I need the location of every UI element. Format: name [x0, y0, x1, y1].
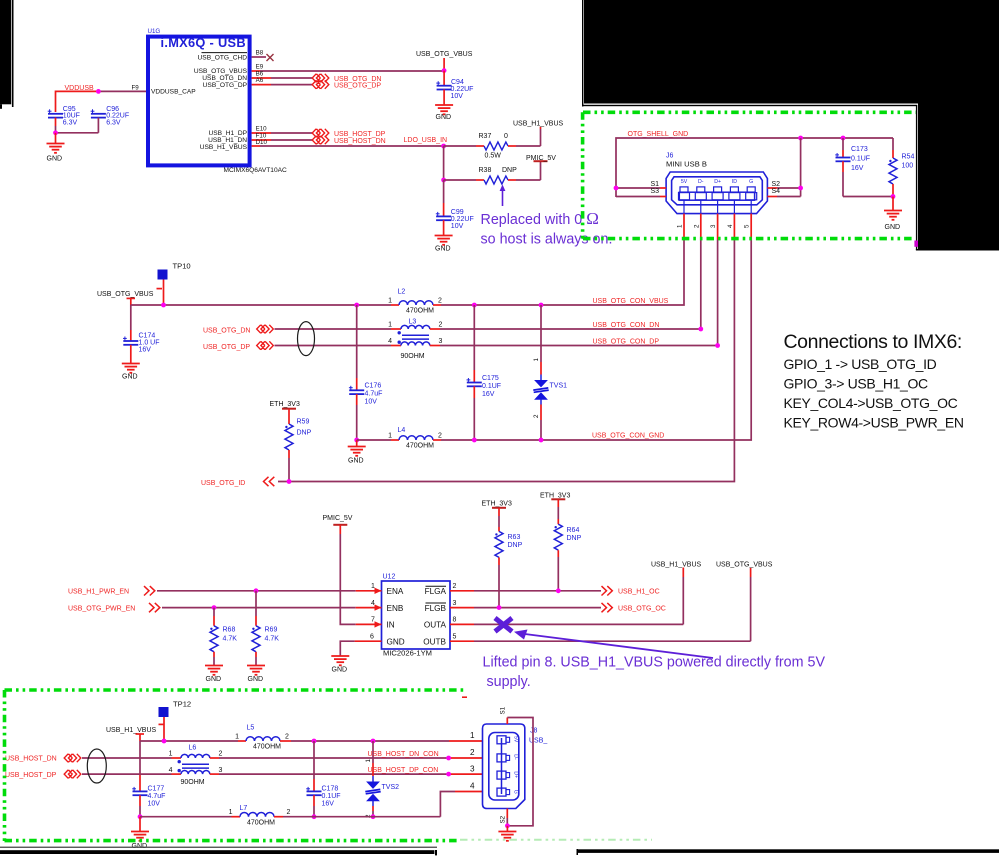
svg-text:USB_OTG_CON_VBUS: USB_OTG_CON_VBUS: [593, 298, 669, 305]
transformer L3 common-mode choke: [388, 319, 442, 361]
redaction bar top-right: [582, 0, 999, 251]
svg-text:i.MX6Q - USB: i.MX6Q - USB: [161, 35, 246, 50]
wire OUTA pin8: [450, 568, 683, 625]
redaction bar top-left: [0, 0, 14, 109]
junction C94 tap: [442, 68, 447, 73]
wire OTG_DP row: [275, 345, 718, 347]
svg-text:TP10: TP10: [173, 262, 191, 271]
junction DN_CON: [446, 756, 451, 761]
svg-text:2: 2: [693, 224, 700, 228]
svg-text:90OHM: 90OHM: [181, 779, 205, 786]
off-page connector USB_HOST_DP (bottom): [64, 770, 81, 778]
svg-text:DNP: DNP: [567, 535, 582, 542]
svg-text:DNP: DNP: [508, 542, 523, 549]
svg-text:USB_OTG_PWR_EN: USB_OTG_PWR_EN: [68, 605, 135, 612]
svg-text:8: 8: [453, 617, 457, 624]
svg-text:GND: GND: [435, 246, 451, 253]
pin 3 wire J6 to CON_DP: [710, 214, 718, 346]
pin S3: [616, 188, 666, 196]
svg-text:GPIO_3-> USB_H1_OC: GPIO_3-> USB_H1_OC: [784, 376, 929, 392]
svg-text:2: 2: [470, 748, 475, 757]
resistor R59 DNP: [285, 409, 312, 482]
wire HOST_DN row: [82, 757, 483, 759]
svg-text:R69: R69: [265, 627, 278, 634]
svg-text:S4: S4: [772, 188, 781, 195]
svg-text:D+: D+: [513, 771, 519, 778]
svg-text:GND: GND: [206, 676, 222, 683]
wire D10 USB_H1_VBUS / LDO_USB_IN: [252, 139, 444, 146]
pin 1 wire J6 to CON_VBUS: [541, 214, 684, 305]
wire OTG VBUS rail: [131, 304, 541, 306]
svg-text:1: 1: [235, 734, 239, 741]
junction R69 on ENA: [254, 588, 259, 593]
svg-text:0.1UF: 0.1UF: [482, 383, 501, 390]
svg-text:5: 5: [744, 224, 751, 228]
junction S2 shield: [505, 823, 510, 828]
svg-text:GND: GND: [248, 676, 264, 683]
svg-text:USB_OTG_DP: USB_OTG_DP: [203, 344, 250, 351]
svg-text:USB_OTG_CON_GND: USB_OTG_CON_GND: [592, 432, 664, 439]
svg-text:L4: L4: [398, 427, 406, 434]
svg-text:2: 2: [285, 734, 289, 741]
svg-text:GND: GND: [885, 224, 901, 231]
annotation ellipse (host diff pair): [87, 749, 106, 783]
svg-text:R64: R64: [567, 527, 580, 534]
connector J6 MINI USB B: [666, 153, 767, 214]
svg-text:LDO_USB_IN: LDO_USB_IN: [404, 137, 448, 144]
wire GND return row L7: [140, 792, 483, 817]
svg-text:USB_HOST_DN_CON: USB_HOST_DN_CON: [368, 751, 439, 758]
svg-text:10V: 10V: [451, 93, 464, 100]
capacitor C95: [48, 106, 80, 133]
capacitor C178: [306, 741, 340, 817]
pin 2 wire J6 to CON_DN: [693, 214, 701, 329]
inductor L7: [229, 805, 291, 827]
junction R63 on FLGB: [497, 605, 502, 610]
svg-text:S1: S1: [500, 706, 507, 714]
node USB_OTG_VBUS label (mid rail): [97, 289, 162, 305]
junction S2 riser: [798, 186, 803, 191]
svg-text:ETH_3V3: ETH_3V3: [482, 501, 512, 508]
svg-text:L2: L2: [398, 289, 406, 296]
off-page connector USB_OTG_DP (mid): [257, 341, 274, 349]
svg-text:KEY_COL4->USB_OTG_OC: KEY_COL4->USB_OTG_OC: [784, 395, 958, 411]
svg-text:USB_HOST_DP_CON: USB_HOST_DP_CON: [368, 767, 439, 774]
svg-text:6.3V: 6.3V: [63, 119, 78, 126]
pin boxes J6: [679, 187, 757, 214]
redaction bar bottom-left: [0, 847, 437, 856]
wire FLGA pin2: [450, 583, 601, 591]
svg-text:S3: S3: [651, 188, 660, 195]
wire OUTB pin5: [450, 568, 751, 642]
svg-text:USB_OTG_ID: USB_OTG_ID: [201, 480, 245, 487]
svg-text:F9: F9: [132, 85, 140, 92]
diode TVS2: [365, 741, 399, 818]
wire ENA pin1: [157, 583, 382, 594]
wire cap commons to ground: [56, 132, 99, 134]
off-page connector USB_OTG_PWR_EN: [149, 603, 160, 612]
junction on VDDUSB at C96: [96, 89, 101, 94]
svg-text:GPIO_1 -> USB_OTG_ID: GPIO_1 -> USB_OTG_ID: [784, 356, 937, 372]
svg-text:1: 1: [169, 751, 173, 758]
annotation replaced with 0 ohm: [481, 209, 613, 248]
svg-text:3: 3: [453, 600, 457, 607]
off-page connector USB_OTG_OC: [602, 603, 613, 612]
svg-text:PMIC_5V: PMIC_5V: [323, 515, 353, 522]
svg-text:6: 6: [370, 633, 374, 640]
svg-text:TVS2: TVS2: [382, 784, 400, 791]
svg-text:B8: B8: [256, 50, 264, 57]
junction TVS1 bottom: [539, 438, 544, 443]
svg-text:GND: GND: [348, 458, 364, 465]
capacitor C173: [835, 138, 870, 197]
resistor R38 DNP: [444, 167, 541, 184]
svg-text:USB_OTG_DP: USB_OTG_DP: [334, 83, 381, 90]
svg-text:L7: L7: [240, 805, 248, 812]
svg-text:10V: 10V: [451, 223, 464, 230]
resistor R54: [889, 138, 914, 197]
svg-text:3: 3: [710, 224, 717, 228]
ground GND (C176): [348, 440, 366, 465]
node PMIC_5V label (U12): [323, 515, 353, 525]
svg-text:USB_OTG_DN: USB_OTG_DN: [203, 328, 250, 335]
junction C176 top: [354, 303, 359, 308]
node ETH_3V3 label (R64): [540, 492, 570, 499]
junction C175 bottom: [472, 438, 477, 443]
wire ENB pin4: [162, 600, 382, 611]
annotation ellipse (diff pair): [298, 322, 315, 356]
pin S1: [616, 181, 666, 188]
pin S2: [767, 181, 800, 188]
svg-text:OUTA: OUTA: [424, 621, 447, 630]
svg-text:J6: J6: [666, 153, 674, 160]
svg-text:USB_OTG_CON_DN: USB_OTG_CON_DN: [593, 322, 660, 329]
svg-text:ENB: ENB: [387, 604, 404, 613]
svg-text:0.1UF: 0.1UF: [322, 793, 341, 800]
svg-text:OTG_SHELL_GND: OTG_SHELL_GND: [628, 131, 689, 138]
svg-text:so host is always on.: so host is always on.: [481, 232, 613, 248]
junction CON_DN corner: [698, 327, 703, 332]
transformer L6 common-mode choke: [169, 744, 223, 786]
svg-text:Connections to IMX6:: Connections to IMX6:: [784, 331, 962, 353]
svg-text:USB_OTG_VBUS: USB_OTG_VBUS: [194, 68, 248, 75]
capacitor C94: [436, 71, 473, 105]
node USB_H1_VBUS label (R37): [513, 121, 564, 147]
svg-text:7: 7: [371, 617, 375, 624]
pin 4 wire J6 to USB_OTG_ID: [278, 214, 734, 482]
svg-text:C176: C176: [365, 383, 382, 390]
ground GND (R54): [884, 197, 902, 232]
junction DP_CON: [446, 772, 451, 777]
svg-text:USB_H1_VBUS: USB_H1_VBUS: [106, 727, 157, 734]
junction R68 on ENB: [212, 605, 217, 610]
svg-text:GND: GND: [436, 114, 452, 121]
svg-text:USB_OTG_VBUS: USB_OTG_VBUS: [716, 562, 773, 569]
svg-text:470OHM: 470OHM: [406, 443, 434, 450]
svg-text:4: 4: [470, 782, 475, 791]
svg-text:C177: C177: [148, 786, 165, 793]
svg-text:10V: 10V: [148, 801, 161, 808]
ground GND (J8 shield): [498, 826, 516, 841]
svg-text:100: 100: [902, 163, 914, 170]
svg-text:5: 5: [453, 633, 457, 640]
wire HOST_DP row: [82, 773, 483, 775]
ground GND (R68): [205, 666, 223, 684]
wire C173 bottom to R54: [843, 196, 893, 198]
wire IN pin7: [356, 617, 382, 628]
junction C178 bottom: [312, 814, 317, 819]
svg-text:C174: C174: [139, 333, 156, 340]
svg-text:G: G: [749, 179, 753, 185]
svg-text:GND: GND: [387, 637, 405, 646]
svg-text:D+: D+: [714, 179, 721, 185]
svg-text:1: 1: [388, 322, 392, 329]
svg-text:4: 4: [371, 600, 375, 607]
junction C177 bottom: [138, 814, 143, 819]
svg-text:USB_H1_VBUS: USB_H1_VBUS: [200, 144, 248, 151]
svg-text:5V: 5V: [513, 736, 519, 743]
svg-text:4.7uF: 4.7uF: [365, 391, 383, 398]
capacitor C99: [436, 180, 474, 236]
svg-text:GND: GND: [47, 156, 63, 163]
svg-text:USB_H1_VBUS: USB_H1_VBUS: [651, 562, 702, 569]
svg-text:3: 3: [219, 767, 223, 774]
svg-text:E9: E9: [256, 64, 264, 71]
junction C178 top: [312, 739, 317, 744]
annotation lifted pin8 text: [483, 655, 826, 691]
junction S1 left: [614, 186, 619, 191]
svg-text:4.7uF: 4.7uF: [148, 793, 166, 800]
wire LDO branch down: [443, 146, 445, 180]
svg-text:4: 4: [169, 767, 173, 774]
svg-text:1: 1: [371, 583, 375, 590]
wire B6 USB_OTG_DN: [252, 71, 312, 78]
svg-text:VDDUSB_CAP: VDDUSB_CAP: [151, 89, 196, 96]
svg-text:DNP: DNP: [502, 167, 517, 174]
off-page connector USB_H1_OC: [602, 586, 613, 595]
inductor L2: [388, 289, 442, 315]
node USB_H1_VBUS label (bottom): [106, 724, 164, 741]
svg-text:2: 2: [439, 322, 443, 329]
inductor L4: [388, 427, 442, 450]
off-page connector USB_OTG_DP: [312, 80, 329, 88]
pin boxes J8: [497, 736, 519, 796]
test point TP12: [159, 700, 192, 742]
junction TP12: [162, 739, 167, 744]
annotation arrow lifted pin8: [514, 630, 713, 659]
off-page connector USB_HOST_DP: [312, 129, 329, 137]
svg-text:90OHM: 90OHM: [401, 353, 425, 360]
svg-text:C175: C175: [482, 375, 499, 382]
svg-text:USB_: USB_: [529, 738, 547, 745]
svg-text:0.22UF: 0.22UF: [451, 216, 474, 223]
svg-text:USB_HOST_DP: USB_HOST_DP: [5, 772, 57, 779]
svg-text:1: 1: [229, 809, 233, 816]
svg-text:3: 3: [470, 765, 475, 774]
ground GND (C95/C96): [47, 133, 65, 163]
svg-text:USB_OTG_OC: USB_OTG_OC: [618, 605, 666, 612]
svg-text:USB_H1_PWR_EN: USB_H1_PWR_EN: [68, 589, 129, 596]
svg-text:2: 2: [287, 809, 291, 816]
svg-text:S2: S2: [772, 181, 781, 188]
resistor R69: [252, 591, 279, 666]
wire CON_GND row left: [357, 439, 391, 441]
svg-text:Lifted pin 8. USB_H1_VBUS pow: Lifted pin 8. USB_H1_VBUS powered direct…: [483, 655, 826, 671]
wire S2S4 riser: [800, 138, 802, 197]
svg-text:ID: ID: [732, 179, 737, 185]
junction R64 on FLGA: [556, 588, 561, 593]
wire VDDUSB rail: [56, 91, 147, 112]
svg-text:TP12: TP12: [173, 700, 191, 709]
junction C173 top: [841, 136, 846, 141]
svg-text:MCIMX6Q6AVT10AC: MCIMX6Q6AVT10AC: [224, 167, 288, 174]
svg-text:TVS1: TVS1: [550, 383, 568, 390]
off-page connector USB_OTG_DN (mid): [257, 325, 274, 333]
ground GND (C174): [122, 364, 140, 381]
junction R38 branch: [441, 178, 446, 183]
off-page connector USB_OTG_DN: [312, 74, 329, 82]
svg-text:MIC2026-1YM: MIC2026-1YM: [383, 649, 432, 658]
svg-text:USB_OTG_DP: USB_OTG_DP: [203, 82, 248, 89]
svg-text:ETH_3V3: ETH_3V3: [540, 492, 570, 499]
svg-text:1: 1: [470, 731, 475, 740]
svg-text:1: 1: [677, 224, 684, 228]
svg-text:FLGA: FLGA: [425, 587, 447, 596]
svg-text:C99: C99: [451, 209, 464, 216]
svg-text:S2: S2: [500, 815, 507, 823]
svg-text:KEY_ROW4->USB_PWR_EN: KEY_ROW4->USB_PWR_EN: [784, 415, 964, 431]
resistor R68: [210, 608, 237, 666]
svg-text:S1: S1: [651, 181, 660, 188]
resistor R63 DNP: [495, 508, 523, 608]
svg-text:16V: 16V: [851, 165, 864, 172]
wire OTG_SHELL_GND: [616, 138, 893, 197]
svg-text:USB_H1_OC: USB_H1_OC: [618, 589, 660, 596]
svg-text:16V: 16V: [482, 391, 495, 398]
svg-text:0.1UF: 0.1UF: [851, 156, 870, 163]
svg-text:4.7K: 4.7K: [265, 636, 280, 643]
off-page connector USB_HOST_DN: [312, 136, 329, 144]
wire FLGB pin3: [450, 600, 601, 608]
svg-text:USB_HOST_DN: USB_HOST_DN: [334, 138, 386, 145]
svg-text:R37: R37: [479, 133, 492, 140]
svg-text:C173: C173: [851, 146, 868, 153]
svg-text:16V: 16V: [322, 801, 335, 808]
svg-text:R68: R68: [223, 627, 236, 634]
off-page connector USB_H1_PWR_EN: [144, 586, 155, 595]
junction S2S4 riser top: [798, 136, 803, 141]
svg-text:U1G: U1G: [148, 28, 161, 35]
ground GND (C99): [435, 236, 453, 253]
node ETH_3V3 label (R59): [270, 401, 300, 409]
svg-text:1: 1: [388, 433, 392, 440]
svg-text:USB_H1_DP: USB_H1_DP: [209, 130, 248, 137]
svg-text:5V: 5V: [681, 179, 688, 185]
junction R59 on ID row: [287, 479, 292, 484]
svg-text:USB_HOST_DP: USB_HOST_DP: [334, 131, 386, 138]
capacitor C177: [132, 741, 165, 817]
ground GND (U12 pin6): [331, 656, 349, 674]
svg-text:1.0 UF: 1.0 UF: [139, 340, 160, 347]
junction LDO_USB_IN branch: [441, 144, 446, 149]
svg-text:0: 0: [504, 133, 508, 140]
junction R54 bottom: [891, 194, 896, 199]
svg-text:4: 4: [727, 224, 734, 228]
svg-text:R54: R54: [902, 154, 915, 161]
wire GND pin6: [340, 633, 381, 656]
test point TP10: [158, 262, 191, 306]
svg-text:L5: L5: [247, 725, 255, 732]
svg-text:USB_OTG_CON_DP: USB_OTG_CON_DP: [593, 339, 660, 346]
svg-text:1: 1: [388, 298, 392, 305]
svg-text:PMIC_5V: PMIC_5V: [526, 155, 556, 162]
IC U1G i.MX6Q - USB: [148, 28, 288, 174]
wire E10 USB_H1_DP: [252, 126, 312, 133]
pin B8 no-connect: [252, 50, 274, 61]
resistor R37: [444, 133, 541, 160]
svg-text:R59: R59: [297, 419, 310, 426]
svg-text:G: G: [513, 790, 519, 794]
diode TVS1: [533, 305, 567, 440]
svg-text:L3: L3: [409, 319, 417, 326]
svg-text:0.22UF: 0.22UF: [451, 86, 474, 93]
IC U12 MIC2026-1YM: [382, 574, 451, 658]
pin S4: [767, 188, 800, 196]
svg-text:USB_OTG_VBUS: USB_OTG_VBUS: [97, 291, 154, 298]
svg-text:470OHM: 470OHM: [247, 820, 275, 827]
node ETH_3V3 label (R63): [482, 501, 512, 508]
wire F10 USB_H1_DN: [252, 133, 312, 140]
highlight box OTG connector (green dashed): [583, 112, 916, 238]
svg-text:FLGB: FLGB: [425, 604, 447, 613]
wire A6 USB_OTG_DP: [252, 77, 312, 84]
junction CON_DP corner: [715, 343, 720, 348]
junction TVS2 top: [371, 739, 376, 744]
svg-text:2: 2: [438, 298, 442, 305]
junction C176 bottom: [354, 438, 359, 443]
svg-text:2: 2: [438, 433, 442, 440]
capacitor C174: [123, 305, 160, 364]
svg-text:R63: R63: [508, 534, 521, 541]
pin S1 J8 shield: [500, 706, 534, 825]
junction C175 top: [472, 303, 477, 308]
off-page connector USB_OTG_ID: [264, 477, 275, 486]
svg-text:C178: C178: [322, 786, 339, 793]
svg-text:GND: GND: [122, 374, 138, 381]
svg-text:USB_OTG_CHD: USB_OTG_CHD: [198, 54, 248, 61]
highlight box host connector (green dashed): [5, 690, 653, 841]
svg-text:3: 3: [439, 338, 443, 345]
svg-text:470OHM: 470OHM: [253, 744, 281, 751]
svg-text:L6: L6: [189, 744, 197, 751]
svg-text:0.5W: 0.5W: [485, 153, 502, 160]
svg-text:C94: C94: [451, 79, 464, 86]
junction TVS1 top: [539, 303, 544, 308]
wire PMIC_5V to IN: [340, 525, 355, 624]
redaction bar bottom-right: [577, 849, 999, 855]
wire H1 VBUS rail: [140, 740, 483, 742]
svg-text:2: 2: [219, 751, 223, 758]
pin S2 J8 shield: [500, 809, 508, 826]
svg-text:ETH_3V3: ETH_3V3: [270, 401, 300, 408]
svg-text:USB_OTG_VBUS: USB_OTG_VBUS: [416, 51, 473, 58]
svg-text:A6: A6: [256, 77, 264, 84]
capacitor C96: [91, 106, 130, 133]
resistor R64 DNP: [554, 500, 581, 591]
annotation X lifted pin8: [495, 618, 512, 632]
wire OTG_DN row: [275, 328, 701, 330]
svg-text:USB_H1_VBUS: USB_H1_VBUS: [513, 121, 564, 128]
